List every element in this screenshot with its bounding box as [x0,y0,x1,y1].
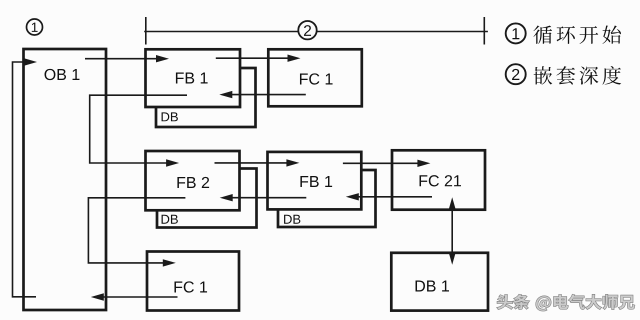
wire cycle restart loop from OB1 bottom back to OB1 top with arrowhead [13,62,37,297]
block FC1 (bottom row) [147,252,239,311]
wire return FC1 to FB1 with arrowhead [231,94,306,96]
label FC 1 (top) [300,73,333,84]
legend circled 2 [506,64,526,84]
label OB 1 [45,69,80,80]
block OB1 [24,49,107,310]
legend text cycle start [533,25,621,43]
instance data block behind FB2 with DB tag [157,169,257,228]
label FC 21 [420,175,461,186]
legend text nesting depth [534,66,621,85]
instance data block behind FB1 (top) with DB tag [156,68,256,127]
label FB 1 (middle) [300,176,332,187]
wire return FB1 to OB1 then down then call FB2 with arrowhead [90,95,187,163]
block DB1 (bottom right) [391,253,488,311]
label FB 2 [177,177,209,188]
wire call FB1 to FC1 with arrowhead [216,57,289,59]
wire return FB1 (middle) to FB2 with arrowhead [232,197,307,199]
dimension line left tick [145,17,147,45]
instance data block behind FB1 (middle) with DB tag [278,170,376,227]
label FC 1 (bottom) [174,281,207,292]
circled number 2 on dimension line [298,21,316,39]
dimension line horizontal [144,31,488,33]
label DB tag of FB2 [162,215,178,224]
label DB tag of FB1 (top) [162,112,178,121]
block FB1 (top row) [146,49,241,107]
wire bidirectional access FC21 to DB1 with two arrowheads [451,209,453,254]
block FB2 (middle row) [146,151,240,210]
wire call FB2 to FB1 (middle) with arrowhead [215,162,288,164]
block FC1 (top row) [268,49,362,106]
label FB 1 (top) [176,72,208,83]
wire call FB1 (middle) to FC21 with arrowhead [343,162,419,164]
wire return FC21 to FB1 (middle) with arrowhead [358,196,433,198]
circled number 1 above OB1 [27,19,43,35]
wire return FC1 (bottom) to OB1 with arrowhead [104,296,178,298]
label DB tag of FB1 (middle) [284,215,300,224]
block FB1 (middle row) [268,152,362,210]
legend circled 1 [506,23,526,43]
dimension line right tick [483,17,485,45]
wire return FB2 to OB1 then down then call FC1 (bottom) with arrowhead [88,198,185,263]
wire call OB1 to FB1 with arrowhead [85,58,157,60]
label DB 1 [416,280,449,291]
watermark toutiao text [497,295,634,311]
block FC21 (middle row) [392,150,485,209]
